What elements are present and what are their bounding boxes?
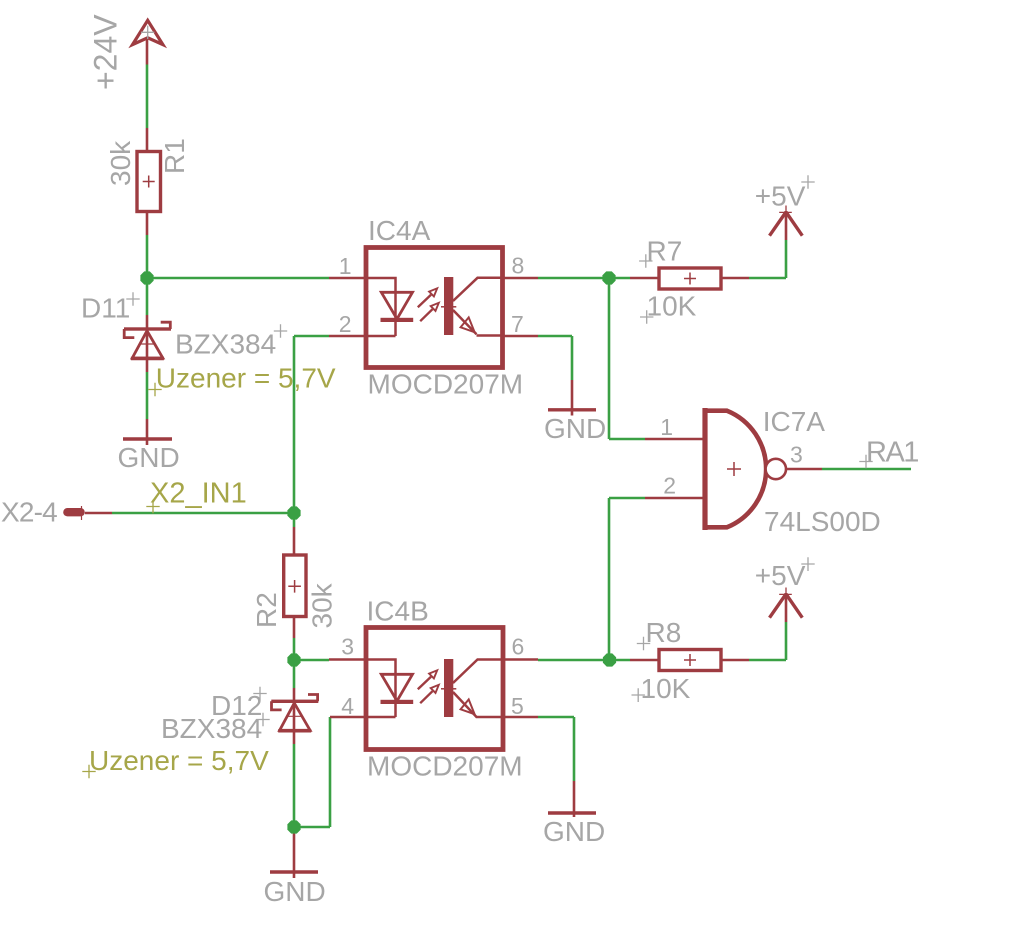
- svg-text:BZX384: BZX384: [175, 329, 276, 360]
- svg-text:D11: D11: [81, 293, 130, 324]
- svg-text:2: 2: [663, 473, 676, 499]
- svg-text:R2: R2: [251, 592, 282, 628]
- svg-text:GND: GND: [264, 876, 326, 907]
- svg-text:IC4A: IC4A: [368, 215, 431, 246]
- svg-text:R1: R1: [159, 138, 190, 174]
- svg-text:30k: 30k: [105, 140, 136, 186]
- svg-text:R8: R8: [646, 617, 682, 648]
- svg-text:X2-4: X2-4: [1, 497, 57, 528]
- svg-text:10K: 10K: [641, 673, 691, 704]
- svg-text:GND: GND: [118, 442, 180, 473]
- svg-text:30k: 30k: [307, 582, 338, 628]
- svg-text:1: 1: [339, 253, 352, 279]
- svg-text:6: 6: [512, 634, 525, 660]
- svg-text:GND: GND: [543, 816, 605, 847]
- svg-text:4: 4: [341, 693, 354, 719]
- svg-text:MOCD207M: MOCD207M: [367, 751, 523, 782]
- svg-text:IC4B: IC4B: [367, 596, 429, 627]
- svg-text:5: 5: [511, 693, 524, 719]
- svg-text:1: 1: [660, 414, 673, 440]
- svg-text:RA1: RA1: [866, 436, 918, 468]
- svg-text:MOCD207M: MOCD207M: [368, 369, 524, 400]
- svg-text:Uzener = 5,7V: Uzener = 5,7V: [156, 363, 336, 394]
- svg-text:+24V: +24V: [88, 14, 124, 90]
- svg-text:IC7A: IC7A: [763, 406, 826, 437]
- svg-text:74LS00D: 74LS00D: [764, 506, 881, 537]
- svg-text:8: 8: [512, 253, 525, 279]
- svg-text:Uzener = 5,7V: Uzener = 5,7V: [89, 745, 269, 776]
- svg-text:3: 3: [341, 634, 354, 660]
- svg-text:7: 7: [511, 311, 524, 337]
- svg-text:+5V: +5V: [755, 560, 806, 591]
- svg-text:X2_IN1: X2_IN1: [150, 478, 247, 510]
- svg-text:+5V: +5V: [755, 180, 806, 211]
- svg-text:2: 2: [339, 311, 352, 337]
- svg-text:3: 3: [790, 441, 803, 467]
- svg-text:R7: R7: [647, 236, 683, 267]
- svg-text:10K: 10K: [647, 291, 697, 322]
- svg-text:GND: GND: [544, 413, 606, 444]
- svg-text:BZX384: BZX384: [161, 713, 262, 744]
